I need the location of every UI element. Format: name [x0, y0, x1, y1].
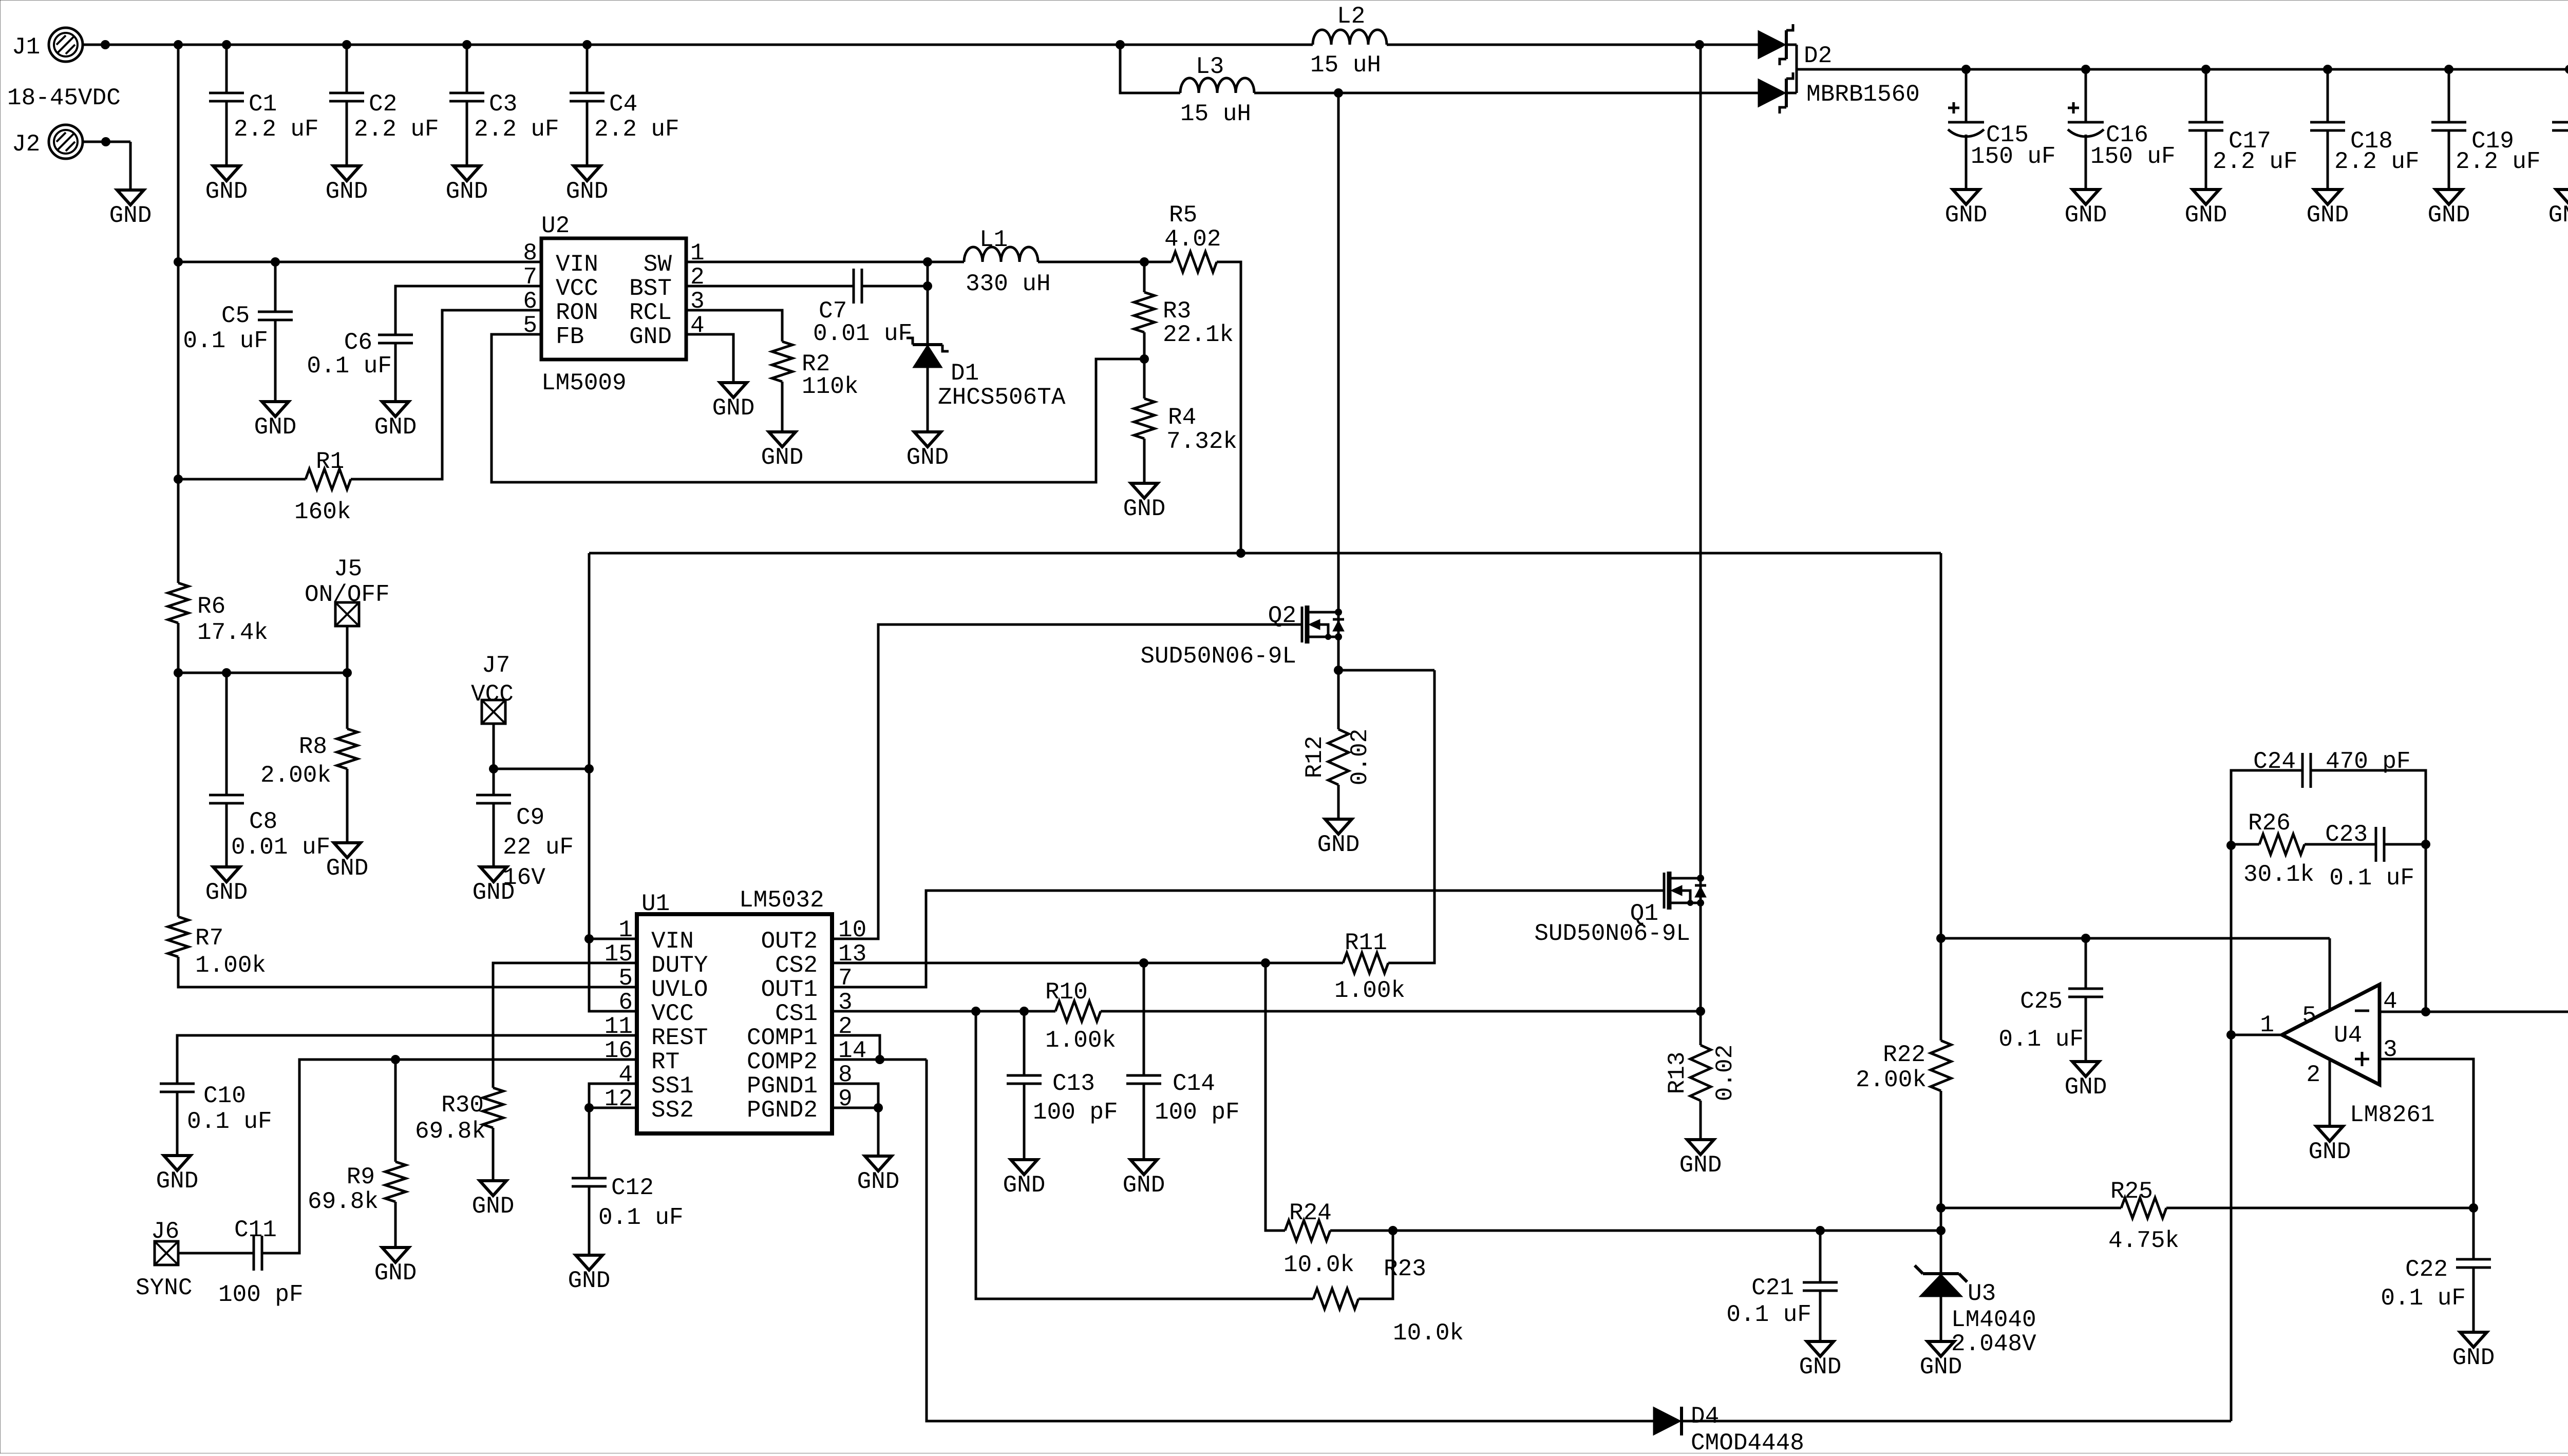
svg-text:BST: BST: [629, 275, 672, 302]
svg-text:22.1k: 22.1k: [1163, 322, 1234, 348]
svg-text:0.1 uF: 0.1 uF: [598, 1204, 684, 1231]
svg-text:C2: C2: [369, 91, 397, 118]
svg-text:RT: RT: [651, 1049, 679, 1075]
svg-text:GND: GND: [2428, 202, 2470, 229]
svg-text:VIN: VIN: [651, 928, 694, 955]
svg-text:0.1 uF: 0.1 uF: [2381, 1285, 2466, 1312]
svg-text:15 uH: 15 uH: [1180, 101, 1251, 127]
svg-text:10.0k: 10.0k: [1393, 1320, 1464, 1347]
svg-text:R30: R30: [441, 1092, 484, 1119]
svg-text:ON/OFF: ON/OFF: [305, 581, 390, 608]
svg-text:0.02: 0.02: [1712, 1045, 1739, 1101]
svg-text:GND: GND: [254, 414, 297, 441]
svg-text:GND: GND: [374, 414, 417, 441]
svg-text:GND: GND: [1679, 1152, 1722, 1179]
svg-text:C6: C6: [344, 329, 372, 356]
svg-text:VCC: VCC: [556, 275, 598, 302]
svg-text:GND: GND: [374, 1260, 417, 1287]
svg-text:D4: D4: [1691, 1403, 1719, 1430]
svg-text:150 uF: 150 uF: [2090, 143, 2176, 170]
svg-text:UVLO: UVLO: [651, 976, 708, 1003]
svg-text:C24: C24: [2253, 748, 2296, 775]
svg-text:R9: R9: [347, 1164, 375, 1190]
svg-text:R11: R11: [1345, 930, 1387, 956]
svg-text:5: 5: [618, 965, 633, 992]
svg-text:R10: R10: [1045, 979, 1088, 1006]
svg-text:MBRB1560: MBRB1560: [1806, 81, 1920, 108]
svg-text:GND: GND: [156, 1168, 199, 1195]
svg-text:2.2 uF: 2.2 uF: [474, 116, 559, 143]
svg-text:COMP2: COMP2: [747, 1049, 818, 1075]
svg-text:160k: 160k: [294, 499, 351, 525]
svg-text:GND: GND: [446, 178, 488, 205]
svg-text:R5: R5: [1169, 202, 1197, 229]
svg-text:U1: U1: [641, 891, 670, 917]
svg-text:U4: U4: [2334, 1022, 2362, 1049]
svg-text:ZHCS506TA: ZHCS506TA: [938, 384, 1066, 411]
svg-text:CMOD4448: CMOD4448: [1691, 1430, 1804, 1453]
svg-text:GND: GND: [2452, 1345, 2495, 1371]
svg-text:SW: SW: [644, 251, 672, 278]
svg-text:GND: GND: [109, 202, 152, 229]
svg-text:C11: C11: [234, 1217, 277, 1243]
svg-text:GND: GND: [205, 178, 248, 205]
svg-text:GND: GND: [2065, 1074, 2107, 1101]
svg-text:SS2: SS2: [651, 1097, 694, 1124]
svg-text:SUD50N06-9L: SUD50N06-9L: [1534, 920, 1690, 947]
svg-text:1.00k: 1.00k: [195, 952, 266, 979]
svg-text:C23: C23: [2325, 821, 2368, 848]
svg-text:18-45VDC: 18-45VDC: [7, 85, 121, 111]
svg-text:17.4k: 17.4k: [197, 619, 268, 646]
svg-text:GND: GND: [205, 879, 248, 906]
svg-text:C3: C3: [489, 91, 517, 118]
svg-text:150 uF: 150 uF: [1971, 143, 2056, 170]
svg-text:5: 5: [2302, 1003, 2316, 1029]
svg-text:2.2 uF: 2.2 uF: [234, 116, 319, 143]
svg-text:2.2 uF: 2.2 uF: [2334, 148, 2420, 175]
svg-text:C10: C10: [203, 1083, 246, 1109]
svg-text:GND: GND: [1123, 1172, 1165, 1199]
svg-text:0.1 uF: 0.1 uF: [187, 1108, 272, 1135]
svg-text:0.01 uF: 0.01 uF: [231, 834, 330, 861]
svg-text:J2: J2: [12, 131, 40, 158]
svg-text:R22: R22: [1883, 1042, 1925, 1068]
svg-text:0.1 uF: 0.1 uF: [2329, 865, 2414, 892]
svg-text:R13: R13: [1664, 1052, 1691, 1094]
svg-text:LM5009: LM5009: [541, 370, 627, 396]
svg-text:C4: C4: [609, 91, 637, 118]
svg-text:10.0k: 10.0k: [1283, 1252, 1354, 1278]
svg-text:GND: GND: [2065, 202, 2107, 229]
svg-text:2.00k: 2.00k: [260, 762, 331, 789]
svg-text:RON: RON: [556, 299, 598, 326]
svg-text:R1: R1: [316, 448, 344, 475]
svg-text:1.00k: 1.00k: [1045, 1027, 1116, 1054]
svg-text:GND: GND: [1003, 1172, 1046, 1199]
svg-text:2: 2: [2306, 1062, 2320, 1088]
svg-text:CS2: CS2: [775, 952, 818, 979]
svg-text:J5: J5: [334, 556, 362, 582]
svg-text:R12: R12: [1301, 736, 1328, 779]
svg-text:GND: GND: [1123, 496, 1166, 522]
svg-text:30.1k: 30.1k: [2243, 861, 2314, 888]
svg-text:2.048V: 2.048V: [1951, 1331, 2036, 1357]
svg-text:GND: GND: [2307, 202, 2349, 229]
svg-text:0.1 uF: 0.1 uF: [1998, 1026, 2084, 1053]
svg-text:2.00k: 2.00k: [1856, 1067, 1927, 1093]
svg-text:SYNC: SYNC: [136, 1275, 192, 1301]
svg-text:GND: GND: [326, 855, 369, 882]
svg-text:L2: L2: [1337, 3, 1365, 30]
svg-text:C9: C9: [516, 804, 544, 831]
svg-text:GND: GND: [761, 444, 804, 471]
svg-text:GND: GND: [568, 1268, 611, 1294]
svg-text:15 uH: 15 uH: [1310, 52, 1381, 79]
svg-text:2.2 uF: 2.2 uF: [594, 116, 679, 143]
svg-text:C21: C21: [1751, 1275, 1794, 1301]
svg-text:SUD50N06-9L: SUD50N06-9L: [1140, 643, 1296, 670]
svg-text:SS1: SS1: [651, 1073, 694, 1100]
svg-text:2.2 uF: 2.2 uF: [2213, 148, 2298, 175]
svg-text:U3: U3: [1968, 1280, 1996, 1307]
svg-text:69.8k: 69.8k: [308, 1188, 379, 1215]
svg-text:VCC: VCC: [651, 1000, 694, 1027]
svg-text:69.8k: 69.8k: [415, 1118, 486, 1145]
svg-text:J6: J6: [151, 1218, 179, 1245]
svg-text:GND: GND: [2309, 1139, 2351, 1165]
svg-text:R4: R4: [1168, 404, 1196, 431]
svg-text:0.01 uF: 0.01 uF: [813, 320, 912, 347]
svg-text:110k: 110k: [802, 373, 858, 400]
svg-text:LM5032: LM5032: [739, 887, 824, 914]
svg-text:D1: D1: [951, 360, 979, 387]
svg-text:GND: GND: [473, 879, 515, 906]
svg-text:J7: J7: [482, 652, 510, 679]
svg-text:0.1 uF: 0.1 uF: [183, 328, 268, 354]
svg-text:C5: C5: [221, 302, 250, 329]
svg-text:GND: GND: [907, 444, 949, 471]
svg-text:VIN: VIN: [556, 251, 598, 278]
svg-text:GND: GND: [1920, 1354, 1962, 1381]
svg-text:PGND2: PGND2: [747, 1097, 818, 1124]
svg-text:VCC: VCC: [471, 681, 514, 708]
svg-text:1.00k: 1.00k: [1334, 977, 1405, 1004]
svg-text:J1: J1: [12, 34, 40, 61]
svg-text:REST: REST: [651, 1025, 708, 1051]
svg-text:C22: C22: [2405, 1256, 2448, 1283]
svg-text:LM8261: LM8261: [2350, 1102, 2435, 1128]
svg-text:GND: GND: [1945, 202, 1988, 229]
svg-text:L1: L1: [979, 226, 1008, 253]
svg-text:RCL: RCL: [629, 299, 672, 326]
svg-text:22 uF: 22 uF: [503, 834, 574, 861]
svg-text:GND: GND: [472, 1193, 515, 1220]
svg-text:GND: GND: [2185, 202, 2227, 229]
svg-text:C13: C13: [1052, 1070, 1095, 1097]
svg-text:C25: C25: [2020, 988, 2063, 1015]
svg-text:100 pF: 100 pF: [1033, 1099, 1118, 1126]
svg-text:R8: R8: [299, 733, 327, 760]
svg-text:R24: R24: [1289, 1200, 1332, 1226]
svg-text:C12: C12: [611, 1175, 654, 1201]
svg-text:GND: GND: [1799, 1354, 1842, 1381]
svg-text:2.2 uF: 2.2 uF: [354, 116, 439, 143]
svg-text:U2: U2: [541, 213, 570, 239]
svg-text:R6: R6: [197, 593, 225, 620]
svg-text:100 pF: 100 pF: [218, 1281, 304, 1308]
svg-text:C8: C8: [249, 808, 277, 835]
svg-text:2.2 uF: 2.2 uF: [2456, 148, 2541, 175]
svg-text:CS1: CS1: [775, 1000, 818, 1027]
svg-text:4.02: 4.02: [1164, 226, 1221, 253]
svg-text:DUTY: DUTY: [651, 952, 708, 979]
svg-text:GND: GND: [566, 178, 609, 205]
svg-text:C14: C14: [1173, 1070, 1215, 1097]
svg-text:R7: R7: [195, 925, 223, 952]
svg-text:FB: FB: [556, 324, 584, 350]
svg-text:0.1 uF: 0.1 uF: [307, 353, 392, 380]
svg-text:0.02: 0.02: [1347, 729, 1373, 785]
svg-text:0.1 uF: 0.1 uF: [1726, 1301, 1811, 1328]
svg-text:GND: GND: [857, 1168, 900, 1195]
svg-text:R25: R25: [2110, 1178, 2153, 1205]
svg-text:R26: R26: [2248, 810, 2291, 837]
svg-text:PGND1: PGND1: [747, 1073, 818, 1100]
svg-text:4.75k: 4.75k: [2108, 1227, 2179, 1254]
svg-text:100 pF: 100 pF: [1155, 1099, 1240, 1126]
svg-text:C1: C1: [249, 91, 277, 118]
svg-text:LM4040: LM4040: [1951, 1307, 2036, 1333]
svg-text:OUT2: OUT2: [761, 928, 818, 955]
svg-text:L3: L3: [1196, 53, 1224, 80]
svg-text:GND: GND: [2548, 202, 2568, 229]
svg-text:7.32k: 7.32k: [1166, 428, 1237, 455]
svg-text:GND: GND: [712, 395, 755, 422]
svg-text:330 uH: 330 uH: [966, 271, 1051, 297]
svg-text:GND: GND: [326, 178, 368, 205]
svg-text:D2: D2: [1804, 43, 1832, 69]
svg-text:Q2: Q2: [1268, 602, 1296, 629]
svg-text:COMP1: COMP1: [747, 1025, 818, 1051]
svg-text:R23: R23: [1384, 1256, 1426, 1282]
svg-text:OUT1: OUT1: [761, 976, 818, 1003]
svg-text:GND: GND: [629, 324, 672, 350]
svg-text:R3: R3: [1163, 298, 1191, 325]
svg-text:GND: GND: [1317, 831, 1360, 858]
